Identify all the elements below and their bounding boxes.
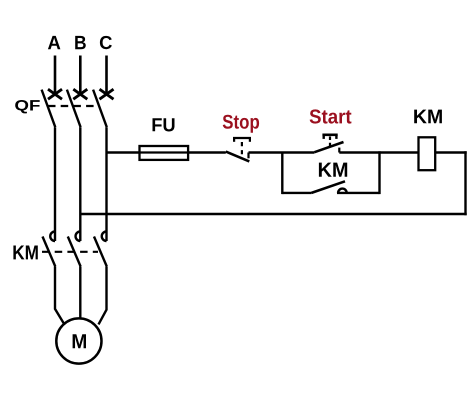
- phase label B: [75, 36, 86, 49]
- wire parallel branch bottom left: [282, 192, 311, 194]
- pushbutton Start (NO): [315, 135, 344, 153]
- phase label C: [100, 36, 112, 49]
- contactor KM label (main contacts): [13, 246, 37, 260]
- wire Stop to Start: [249, 151, 315, 153]
- wire C from QF to KM contact: [105, 127, 107, 241]
- contactor KM main contact B: [68, 232, 81, 267]
- wire phase C feed: [105, 56, 108, 95]
- contact KM auxiliary label: [319, 163, 347, 177]
- wire C from KM contact to motor: [99, 267, 107, 325]
- coil KM: [419, 137, 436, 170]
- breaker QF blade A: [42, 90, 56, 128]
- coil KM label: [414, 110, 442, 124]
- fuse FU: [139, 146, 189, 160]
- pushbutton Stop (NC): [226, 138, 251, 161]
- contactor KM linkage dashed line: [42, 251, 98, 253]
- wire phase B feed: [79, 56, 82, 95]
- Start label: [310, 109, 352, 123]
- fuse FU label: [153, 118, 175, 131]
- breaker contact cross A: [48, 89, 62, 99]
- breaker contact cross B: [73, 89, 87, 99]
- wire B from KM contact to motor: [79, 267, 81, 318]
- wire rung C to fuse: [107, 151, 141, 153]
- breaker QF blade C: [93, 90, 107, 128]
- wire A from KM contact to motor: [55, 267, 64, 324]
- contactor KM main contact C: [94, 232, 107, 267]
- phase label A: [48, 36, 61, 49]
- wire B from QF to KM contact: [79, 127, 81, 241]
- wire A from QF to KM contact: [54, 127, 56, 241]
- motor M: [56, 318, 101, 363]
- contact KM auxiliary (NO): [312, 181, 347, 193]
- breaker contact cross C: [100, 89, 114, 99]
- wire parallel branch left drop: [281, 153, 283, 195]
- wire parallel branch bottom right: [337, 192, 380, 194]
- contactor KM main contact A: [43, 232, 56, 267]
- wire parallel branch right rise: [378, 151, 380, 194]
- wire right side down: [464, 151, 466, 215]
- wire coil to right corner: [435, 151, 467, 153]
- breaker QF blade B: [67, 90, 81, 128]
- wire fuse to Stop: [189, 151, 226, 153]
- wire bottom return to phase B: [80, 213, 466, 216]
- wire Start to coil: [339, 151, 418, 153]
- breaker QF label: [15, 100, 40, 113]
- breaker QF linkage dashed line: [48, 105, 100, 107]
- wire phase A feed: [54, 56, 57, 95]
- Stop label: [223, 115, 259, 133]
